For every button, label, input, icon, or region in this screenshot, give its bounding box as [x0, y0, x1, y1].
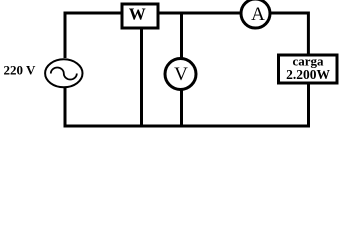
- ammeter A: [241, 0, 270, 28]
- load carga 2.200W: [279, 54, 338, 83]
- AC source V1 220 V: [45, 59, 82, 87]
- voltmeter V: [165, 59, 196, 90]
- wire: source bottom to bottom bus: [64, 88, 67, 127]
- svg-text:W: W: [129, 5, 146, 24]
- wire: wattmeter bottom lead to bottom bus: [140, 29, 143, 126]
- svg-text:2.200W: 2.200W: [286, 67, 330, 82]
- wire: load bottom to bottom bus: [307, 84, 310, 126]
- wire: wattmeter right to ammeter: [160, 12, 241, 15]
- wire: voltmeter bottom to bottom bus: [180, 91, 183, 127]
- wire: left vertical + top-left horizontal to wattmeter: [65, 13, 121, 58]
- wire: bottom bus: [64, 125, 311, 128]
- wire: voltmeter branch from top node: [180, 13, 183, 58]
- wire: ammeter right, right corner down to load: [271, 13, 308, 55]
- svg-text:A: A: [251, 4, 265, 25]
- svg-text:V: V: [174, 64, 188, 85]
- wattmeter W: [122, 4, 158, 28]
- svg-text:220 V: 220 V: [4, 62, 37, 77]
